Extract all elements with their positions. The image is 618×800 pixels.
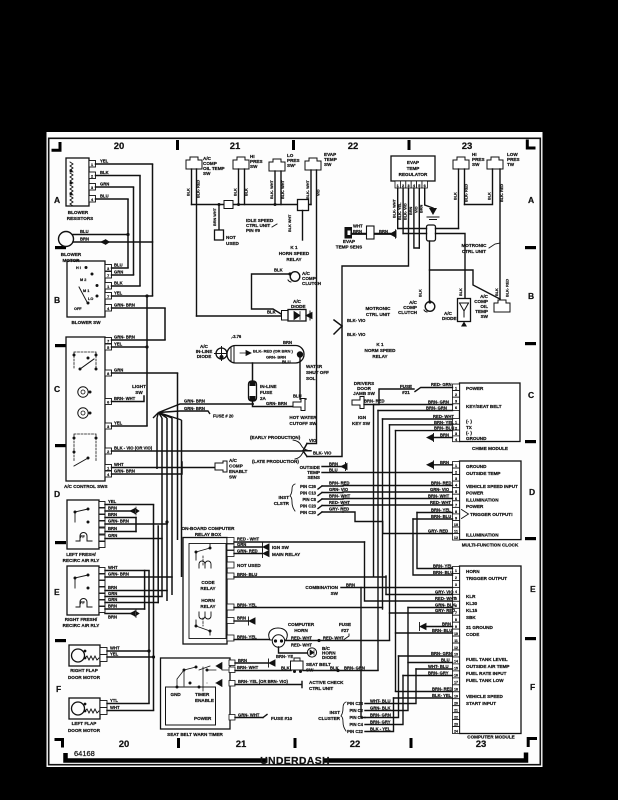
relay pin squares [227,538,234,544]
blower SW pin 7 [105,272,112,279]
svg-text:BRN: BRN [108,506,117,511]
svg-text:3: 3 [455,477,457,481]
arrow inside capsule [240,351,251,356]
right fresh/recirc air rly box [67,566,99,615]
svg-text:BLK- WHT: BLK- WHT [306,180,310,199]
svg-text:DOOR MOTOR: DOOR MOTOR [68,675,101,680]
clock pins [453,462,460,469]
svg-text:8: 8 [455,618,457,622]
wire bus y228 [398,228,459,230]
wire BLU module outside air temp [408,662,453,664]
low pres tw connector [487,157,503,169]
svg-text:BLK- YEL: BLK- YEL [432,693,452,698]
bundle vertical v144 [144,571,146,610]
wire WHT-BLU module fuel rate [416,668,453,670]
bundle vertical v3 [166,418,168,601]
svg-text:RELAY: RELAY [200,604,215,609]
svg-text:BRN- BLU: BRN- BLU [434,426,454,431]
svg-text:1: 1 [107,285,109,289]
svg-text:A: A [54,195,60,205]
svg-text:1: 1 [397,184,399,188]
svg-text:FUSE: FUSE [260,390,272,395]
svg-text:INST: INST [330,710,341,715]
inst clstr upper brace [290,484,295,511]
svg-text:RIGHT FLAP: RIGHT FLAP [70,668,98,673]
svg-text:FUEL TANK LEVEL: FUEL TANK LEVEL [466,657,508,662]
svg-text:RED- WHT: RED- WHT [323,636,344,641]
svg-text:BLK: BLK [267,310,276,315]
wire BLU from resistors [96,198,129,200]
svg-text:CLUTCH: CLUTCH [398,310,418,315]
svg-text:CODE: CODE [466,632,479,637]
computer horn symbol [269,628,288,640]
inst clstr lower brace [341,702,346,731]
relay contacts top [195,551,198,554]
junction dot BLU blower motor [126,233,129,236]
svg-text:CLUTCH: CLUTCH [302,281,322,286]
wire BRN-BLU module code [396,632,453,634]
arrow terminal BRN left rly [130,507,139,515]
dot at capsule right [297,351,303,357]
svg-text:(- ): (- ) [466,419,472,424]
timer pin squares [229,660,235,666]
svg-text:64168: 64168 [74,749,95,758]
wire RED-WHT horn [285,640,390,642]
junction dot YEL ac control [145,345,148,348]
svg-text:BRN- RED: BRN- RED [432,687,452,692]
svg-text:⸝3.76: ⸝3.76 [231,334,242,339]
late production squiggle [295,450,307,459]
svg-text:E: E [530,584,536,594]
corner mark top-right [527,140,535,149]
svg-text:RIGHT FRESH/: RIGHT FRESH/ [65,617,98,622]
wire BLK from resistors [96,175,141,177]
svg-text:5: 5 [455,490,457,494]
svg-text:7: 7 [107,295,109,299]
svg-text:22: 22 [348,141,359,152]
svg-text:BLK: BLK [100,170,109,175]
wire YEL A/C control pin5 [112,346,148,348]
svg-text:20: 20 [119,739,130,750]
tick bottom 20/21 [177,738,180,748]
svg-text:YEL: YEL [110,652,119,657]
right flap motor resistor [85,656,99,660]
svg-text:NOT USED: NOT USED [237,563,261,568]
wire GRY-VIO module [386,594,453,596]
svg-text:PIN C20: PIN C20 [300,510,316,515]
svg-text:ENABLE: ENABLE [195,698,214,703]
wire bus y233 [403,234,465,299]
svg-text:BLK: BLK [187,188,191,196]
svg-text:BLK: BLK [459,288,463,296]
svg-text:2: 2 [455,576,457,580]
regulator pin 4 [411,181,416,188]
svg-text:11: 11 [454,530,458,534]
wire BLK-VIO regulator pin3 long [342,188,409,326]
early production squiggle [293,440,307,450]
svg-text:7: 7 [455,503,457,507]
wire GRN blower SW [112,274,134,276]
wire vertical BLU [127,199,129,268]
left rly pins [99,502,105,508]
a/c diode terminal arrow [306,311,312,320]
svg-text:ILLUMINATION: ILLUMINATION [466,533,499,538]
svg-text:BLK- RED (OR BRN ): BLK- RED (OR BRN ) [253,349,293,354]
bundle vertical v4 [171,418,173,595]
wire BRN-BLU chime [396,430,453,432]
svg-text:5: 5 [107,346,109,350]
timer contacts [176,686,179,689]
svg-text:BLK: BLK [488,192,492,200]
svg-text:FF: FF [80,601,85,605]
svg-text:KEY/SEAT BELT: KEY/SEAT BELT [466,404,502,409]
svg-text:COMPUTER MODULE: COMPUTER MODULE [467,735,514,740]
svg-text:BRN- RED: BRN- RED [431,481,451,486]
timer diodes [216,663,222,670]
bundle vertical v1 [148,571,150,704]
svg-text:SW: SW [250,164,258,169]
row dash C/D right [525,440,536,443]
wire GRN-BRN A/C control pin4 [112,462,183,474]
svg-text:B: B [54,295,60,305]
svg-text:8: 8 [107,372,109,376]
svg-text:BLK WHT: BLK WHT [288,214,292,232]
outside temp sens BRN wire [322,466,341,468]
wire GRN-RED relay main relay [234,553,262,555]
regulator pin 5 [417,181,422,188]
svg-text:DIODE: DIODE [442,316,457,321]
wire BRN-WHT clock [343,498,453,500]
svg-text:TRIGGER OUTPUT: TRIGGER OUTPUT [466,576,507,581]
svg-text:WHT- BLU: WHT- BLU [370,699,390,704]
svg-text:RELAY BOX: RELAY BOX [195,532,222,537]
svg-text:BRN- GRN: BRN- GRN [431,651,452,656]
tick top 21/22 [292,140,295,150]
left flap motor circle [72,702,85,715]
bundle vertical v5 [181,420,183,537]
wire BLK-WHT regulator pin1 [397,188,399,229]
svg-text:13: 13 [454,653,458,657]
junction dot flap YEL [152,655,155,658]
svg-text:CODE: CODE [201,580,214,585]
horn relay coil [199,612,211,619]
a/c diode connector left [282,311,289,321]
wire GRN relay ign sw [234,546,262,548]
wire BRN-YEL module pin1 [417,513,453,569]
svg-text:BLK- WHT: BLK- WHT [393,199,397,218]
comb vertical v378 [377,411,379,671]
svg-text:GRN- BRN: GRN- BRN [114,469,135,474]
svg-text:A: A [528,195,534,205]
a/c comp oil temp sw right connector [494,300,510,312]
svg-text:RED- WHT: RED- WHT [291,643,312,648]
svg-text:RECIRC AIR RLY: RECIRC AIR RLY [63,623,100,628]
svg-text:23: 23 [462,141,473,152]
wire BLK-RED low pres long down [499,169,501,299]
svg-text:GRN: GRN [108,591,117,596]
A/C control pin 7 [105,338,112,344]
wire WHT right rly [105,570,149,572]
svg-text:BLOWER SW: BLOWER SW [71,320,101,325]
A/C comp oil temp sw connector [186,157,202,169]
A/C control pin 8 [105,370,112,376]
svg-text:BRN- BLU: BRN- BLU [431,514,451,519]
svg-text:INST: INST [279,495,290,500]
wire BRN-WHT A/C control pin6 with light sw stub [112,396,145,402]
svg-text:CHIME MODULE: CHIME MODULE [472,446,508,451]
wire BRN regulator pin4 [414,188,419,248]
hi pres sw right connector [453,157,469,169]
svg-text:GRN- BLK: GRN- BLK [435,603,455,608]
svg-text:NOT: NOT [226,235,236,240]
svg-text:BRN- BLU: BRN- BLU [432,628,452,633]
wire GRN left rly [105,538,162,540]
left flap motor pins [100,701,107,708]
svg-text:BLK- VIO: BLK- VIO [347,318,366,323]
svg-text:IGN: IGN [358,415,367,420]
svg-text:4: 4 [455,590,457,594]
svg-text:WATER: WATER [306,364,323,369]
right rly contacts [74,577,77,580]
svg-text:GRN- BRN: GRN- BRN [266,401,287,406]
blk-vio fan [307,320,342,457]
A/C control SWS inner contacts bottom [74,434,96,462]
stair BLK-YEL [365,698,394,732]
svg-text:BLK- VIO: BLK- VIO [404,203,408,220]
svg-text:12: 12 [454,536,458,540]
svg-text:C: C [528,390,534,400]
svg-text:SHUT OFF: SHUT OFF [306,370,329,375]
NOT USED square [215,230,224,240]
junction dots on bus [237,203,240,206]
ground symbol [429,208,437,215]
svg-text:CUTOFF SW: CUTOFF SW [289,421,317,426]
svg-text:GRN- BRN: GRN- BRN [108,572,129,577]
svg-text:A/C: A/C [229,458,238,463]
wire BRN-YEL chime [390,424,453,426]
a/c diode right body [458,299,471,322]
evap temp regulator box [391,156,435,181]
svg-text:EVAP: EVAP [343,239,355,244]
svg-text:18: 18 [454,688,458,692]
wire BRN-YEL relay to horn [234,639,270,641]
svg-text:IGN SW: IGN SW [272,545,290,550]
svg-text:GRN- BRN: GRN- BRN [184,406,205,411]
wire BLK blower SW [112,285,141,287]
svg-text:BLK- VIO: BLK- VIO [347,332,366,337]
svg-text:ILLUMINATION: ILLUMINATION [466,498,499,503]
svg-text:F: F [530,682,535,692]
wire YEL left rly [105,504,154,506]
svg-text:BRN: BRN [283,340,292,345]
svg-text:BRN: BRN [420,205,424,213]
svg-text:WHT: WHT [114,462,124,467]
blower resistors pin 4 [89,196,96,203]
wire BRN left rly 3 [105,531,136,533]
K1 relay contact box [298,200,309,211]
row dash B/C left [55,344,66,347]
svg-text:LO: LO [88,297,93,301]
wire YTL left flap [107,703,149,705]
outside temp sens BLU wire [322,472,452,474]
idle speed stub [272,224,277,227]
hi pres sw connector [233,157,249,169]
A/C control pin 4 [105,471,112,477]
svg-text:1: 1 [455,569,457,573]
stair BRN-GRY [365,676,403,725]
resistor zigzags inside blower resistors [70,162,73,206]
svg-text:LEFT FRESH/: LEFT FRESH/ [66,552,96,557]
comb vertical v389 [389,425,391,640]
svg-text:BRN- GRN: BRN- GRN [370,713,391,718]
svg-text:GRN: GRN [100,182,109,187]
computer module box [460,566,522,734]
svg-text:KL15: KL15 [466,608,478,613]
blower SW pin 3 [105,265,112,272]
svg-text:BRN: BRN [108,585,117,590]
module pins [453,567,460,574]
svg-text:1: 1 [455,386,457,390]
wire WHT left flap [107,710,154,712]
evap temp sw connector [305,158,321,170]
wire GRN-VIO clock [343,491,453,493]
svg-text:BLU: BLU [100,194,109,199]
svg-text:B: B [528,291,534,301]
svg-text:10: 10 [454,632,458,636]
wire BLK oil temp sw [191,169,193,205]
svg-text:BLK- YEL: BLK- YEL [398,202,402,220]
wire BLK-YEL regulator pin2 [402,188,404,234]
wire GRY-RED clock illum with stair [343,512,453,534]
wire vertical GRN-BRN blower sw to ac control [164,308,166,340]
svg-text:5: 5 [418,184,420,188]
svg-text:POWER: POWER [466,386,484,391]
svg-text:WHT: WHT [110,705,120,710]
svg-text:OUTSIDE AIR TEMP: OUTSIDE AIR TEMP [466,664,509,669]
svg-text:PIN C23: PIN C23 [347,701,363,706]
svg-text:19: 19 [454,695,458,699]
stair BRN-GRN [365,656,399,718]
svg-text:GRN- BRN: GRN- BRN [108,519,129,524]
svg-text:SENS: SENS [307,475,320,480]
svg-text:RED- WHT: RED- WHT [435,596,456,601]
svg-text:LIGHT: LIGHT [132,384,146,389]
svg-text:1: 1 [455,464,457,468]
blower SW contacts [85,266,88,269]
stub wires pinC upper [322,486,343,512]
svg-text:SBK: SBK [466,615,476,620]
NOT USED wire [218,205,220,231]
wire BLK hi pres left [238,169,240,205]
svg-text:BLU: BLU [282,360,291,365]
svg-text:20: 20 [114,141,125,152]
svg-text:BRN- RED: BRN- RED [329,481,349,486]
svg-text:PIN C4: PIN C4 [350,722,364,727]
A/C control pin 6 [105,399,112,405]
svg-text:HORN SPEED: HORN SPEED [279,251,310,256]
wire GRN A/C control pin8 [112,372,178,374]
evap temp sens wire [352,233,391,235]
svg-text:GRN: GRN [108,597,117,602]
svg-text:BLK: BLK [234,188,238,196]
chime module pins [453,384,460,391]
wire RED-WHT chime [383,418,453,420]
svg-text:ENABLT: ENABLT [229,469,247,474]
svg-text:BLK - VIO (OR VIO): BLK - VIO (OR VIO) [114,446,153,451]
svg-text:GRN- VIO: GRN- VIO [430,487,450,492]
svg-text:BRN WHT: BRN WHT [213,207,217,226]
svg-text:E: E [54,587,60,597]
svg-text:BRN- WHT: BRN- WHT [428,494,450,499]
svg-text:23: 23 [454,722,458,726]
svg-text:GRN- BRN: GRN- BRN [114,335,135,340]
svg-text:BLK: BLK [274,268,283,273]
blower motor circle [59,232,74,247]
svg-text:GROUND: GROUND [466,464,487,469]
svg-text:GRN- RED: GRN- RED [237,549,258,554]
wire RED-GRN chime pin1 [415,388,453,392]
svg-text:BRN: BRN [80,237,89,242]
right flap motor circle [72,649,85,662]
wire BRN-YEL clock trigger [417,512,453,514]
svg-text:ACTIVE CHECK: ACTIVE CHECK [309,680,344,685]
regulator pin 2 [400,181,405,188]
wire GRN from resistors [96,186,134,188]
svg-text:BLU: BLU [329,468,338,473]
svg-text:RESISTORS: RESISTORS [67,216,93,221]
svg-text:BRN- YEL: BRN- YEL [431,508,451,513]
wire vertical BLK [139,176,141,287]
seat belt timer inner box [166,687,216,725]
wire BLK low pres to hi pres U [465,169,493,205]
svg-text:3: 3 [91,186,93,190]
svg-text:BLK- VIO: BLK- VIO [313,451,332,456]
svg-text:VIO: VIO [317,189,321,196]
svg-text:BRN- YEL (OR BRN- VIO): BRN- YEL (OR BRN- VIO) [238,679,288,684]
svg-text:GRN- WHT: GRN- WHT [238,713,260,718]
svg-text:COMP: COMP [229,464,243,469]
svg-text:START INPUT: START INPUT [466,701,496,706]
svg-text:2: 2 [455,393,457,397]
svg-text:21: 21 [230,141,241,152]
svg-text:10: 10 [454,523,458,527]
svg-text:BLK- RED: BLK- RED [465,184,469,202]
connector plug on bus [224,201,233,209]
svg-text:11: 11 [454,639,458,643]
wire from in-line diode to a/c diode connector [197,315,282,317]
svg-text:MAIN RELAY: MAIN RELAY [272,552,300,557]
svg-text:24: 24 [454,729,458,733]
svg-text:#27: #27 [341,628,349,633]
svg-text:22: 22 [350,739,361,750]
svg-text:WHT: WHT [353,224,363,229]
svg-text:6: 6 [455,497,457,501]
svg-text:6: 6 [424,184,426,188]
svg-text:RED - WHT: RED - WHT [237,537,260,542]
svg-text:PIN C5: PIN C5 [350,715,364,720]
wire BRN-BLU relay [234,576,386,578]
svg-text:RED- WHT: RED- WHT [291,636,312,641]
svg-text:15: 15 [454,667,458,671]
svg-text:M 2: M 2 [80,278,86,282]
svg-text:BLK: BLK [114,281,123,286]
svg-text:BRN: BRN [440,460,449,465]
hot water cutoff sw connector [293,399,305,411]
svg-text:YTL: YTL [110,698,118,703]
connector arrow on BRN wire [100,239,110,245]
wire BRN right rly 2 [105,608,145,610]
svg-text:YEL: YEL [114,342,123,347]
